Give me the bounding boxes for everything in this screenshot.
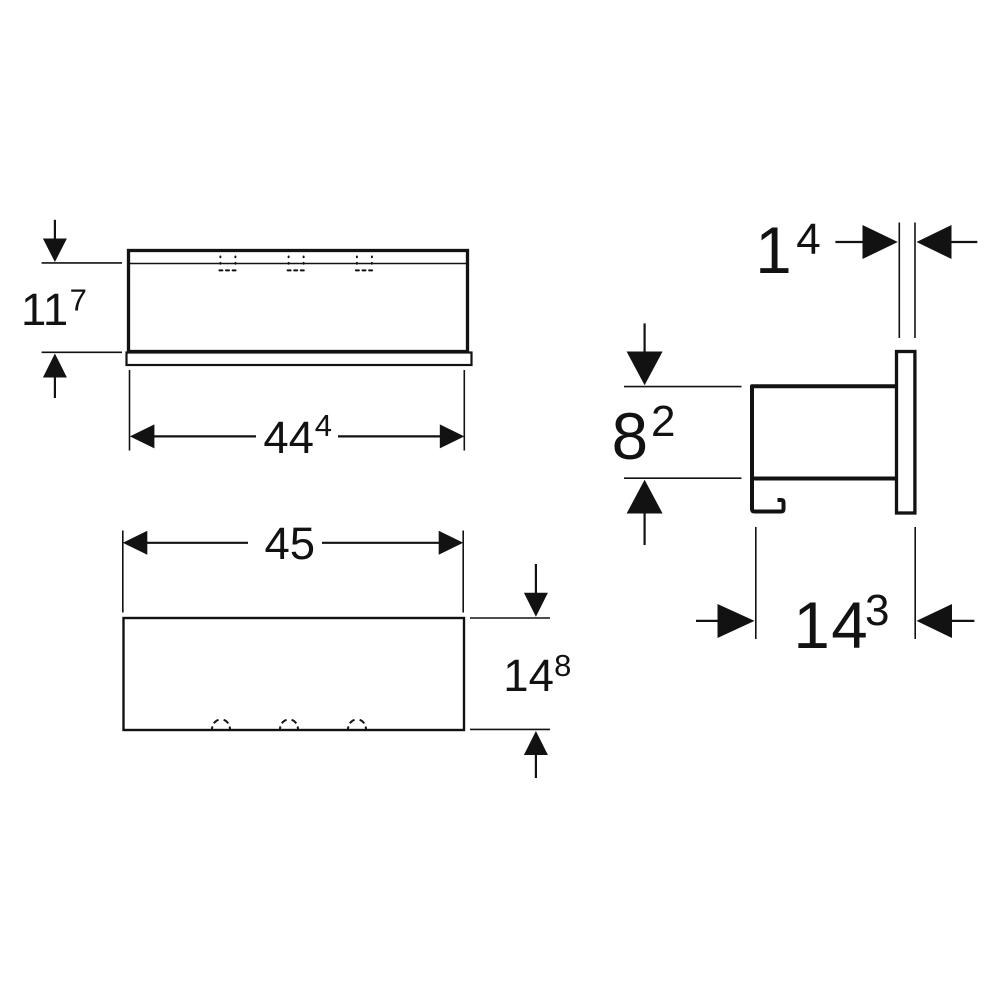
top view: hidden semicircle mark 3	[348, 719, 366, 729]
svg-text:8: 8	[554, 648, 571, 683]
dim 44.4: left extension line	[129, 370, 131, 451]
dim 11.7: upper leader line	[54, 220, 56, 240]
dim 45: right extension line	[462, 531, 464, 613]
dim 11.7: down arrowhead	[43, 239, 67, 263]
dim 1.4: right leader line	[951, 241, 978, 243]
dim 11.7: bottom extension line	[42, 351, 122, 353]
dim 44.4: right dimension line	[338, 435, 441, 437]
dim 8.2: up arrowhead	[627, 480, 663, 514]
front view: shelf main body outline	[129, 251, 468, 352]
svg-text:4: 4	[796, 215, 820, 264]
svg-text:7: 7	[70, 283, 87, 318]
front view: shelf bottom lip	[127, 353, 472, 366]
dim 14.3: left leader line	[696, 620, 719, 622]
svg-text:1: 1	[755, 214, 791, 287]
svg-text:44: 44	[263, 412, 314, 463]
svg-text:45: 45	[264, 518, 315, 569]
dim 44.4: left dimension line	[153, 435, 256, 437]
svg-text:14: 14	[793, 589, 869, 662]
dim 11.7: lower leader line	[54, 376, 56, 398]
svg-text:4: 4	[315, 408, 332, 443]
dim 44.4: left arrowhead	[130, 424, 155, 448]
front view: shelf top edge line	[130, 263, 466, 265]
dim 14.8: upper leader line	[535, 564, 537, 594]
top view: hidden semicircle mark 1	[212, 719, 230, 729]
dim 8.2: upper leader line	[643, 323, 645, 353]
side view: shelf profile outline with front hook	[752, 386, 897, 511]
dim 45: left arrowhead	[123, 531, 148, 555]
dim 14.3: right extension line	[914, 527, 916, 639]
side view: shelf profile bottom edge	[753, 477, 897, 481]
dim 1.4: left extension line	[898, 223, 900, 339]
dim 11.7: top extension line	[42, 262, 122, 264]
dim 1.4: left arrowhead	[917, 225, 952, 259]
dim 1.4: right arrowhead	[863, 225, 898, 259]
dim 11.7: up arrowhead	[43, 354, 67, 378]
svg-text:3: 3	[865, 586, 889, 635]
dim 14.8: down arrowhead	[524, 593, 548, 617]
svg-text:8: 8	[612, 400, 648, 473]
svg-text:14: 14	[503, 650, 554, 701]
dim 14.8: top extension line	[470, 617, 550, 619]
svg-text:2: 2	[651, 397, 675, 446]
front view: hidden bracket mark 2	[288, 257, 305, 271]
side view: wall mounting plate	[897, 352, 915, 514]
dim 14.8: up arrowhead	[524, 731, 548, 755]
front view: hidden bracket mark 3	[356, 257, 373, 271]
dim 45: left extension line	[122, 531, 124, 613]
dim 1.4: left leader line	[835, 241, 863, 243]
dim 8.2: lower leader line	[643, 512, 645, 545]
dim 45: right arrowhead	[439, 531, 464, 555]
dim 45: right dimension line	[322, 542, 440, 544]
dim 8.2: bottom extension line	[624, 477, 742, 479]
dim 14.3: right leader line	[951, 620, 974, 622]
dim 1.4: right extension line	[914, 223, 916, 339]
top view: hidden semicircle mark 2	[280, 719, 298, 729]
dim 14.8: lower leader line	[535, 754, 537, 779]
dim 14.3: left extension line	[755, 527, 757, 639]
svg-text:11: 11	[21, 284, 68, 335]
dim 8.2: top extension line	[624, 386, 742, 388]
dim 14.3: left arrowhead	[917, 604, 953, 638]
dim 14.3: right arrowhead	[718, 604, 755, 638]
top view: shelf body outline	[124, 618, 465, 730]
dim 44.4: right arrowhead	[440, 424, 465, 448]
dim 44.4: right extension line	[463, 370, 465, 451]
dim 14.8: bottom extension line	[470, 728, 550, 730]
front view: hidden bracket mark 1	[219, 257, 236, 271]
dim 8.2: down arrowhead	[627, 352, 663, 386]
dim 45: left dimension line	[146, 542, 248, 544]
